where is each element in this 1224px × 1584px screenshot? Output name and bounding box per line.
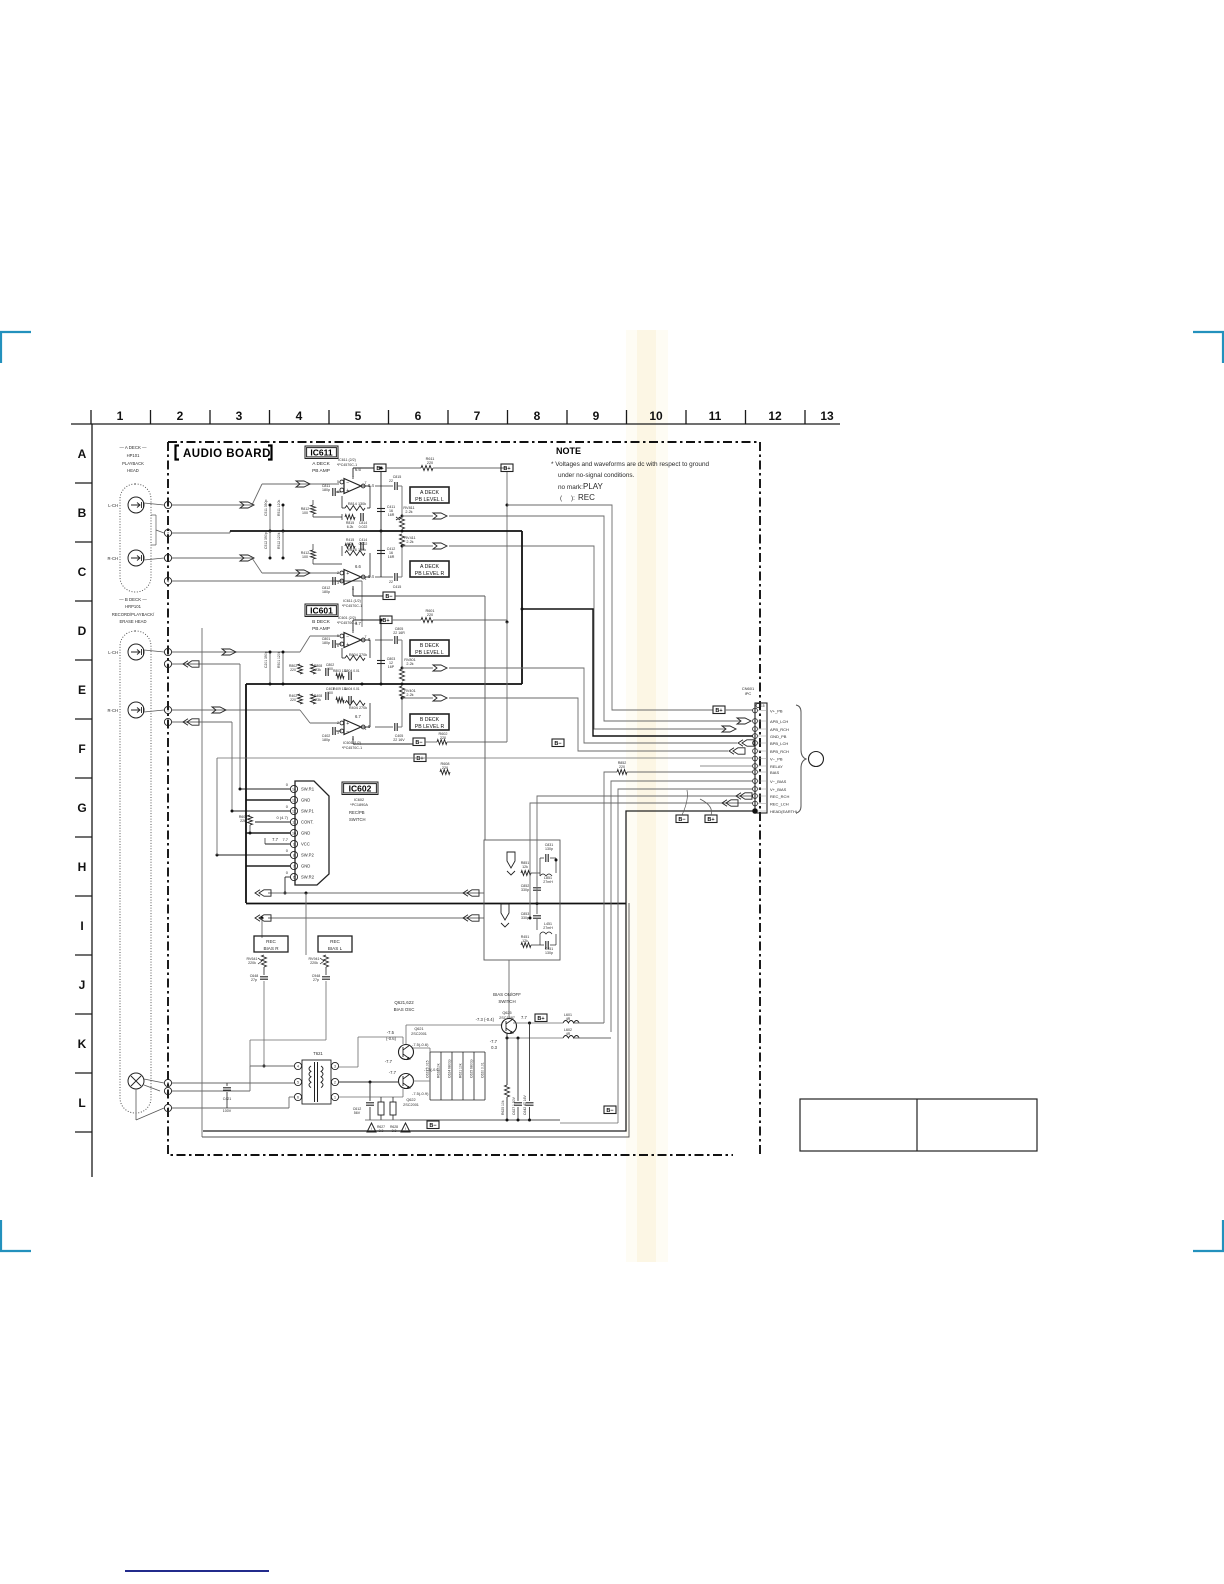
svg-text:2SC2001: 2SC2001 xyxy=(403,1103,419,1107)
svg-text:3: 3 xyxy=(334,1065,336,1069)
svg-text:3: 3 xyxy=(167,557,169,561)
svg-text:D: D xyxy=(78,624,87,638)
svg-text:GND: GND xyxy=(301,798,310,803)
decoupling cap C803 xyxy=(380,620,382,684)
svg-text:2.2k: 2.2k xyxy=(406,662,413,666)
wire E BPB_LCH xyxy=(449,668,737,743)
wire from B- rail down xyxy=(484,596,486,840)
svg-text:Q621,622: Q621,622 xyxy=(394,1000,414,1005)
svg-text:BIAS ON/OFF: BIAS ON/OFF xyxy=(493,992,521,997)
svg-text:C: C xyxy=(78,565,87,579)
arrow on L-ch input xyxy=(240,502,254,508)
B- box IC601 xyxy=(413,738,425,746)
input cap C402 xyxy=(332,727,334,735)
svg-text:B+: B+ xyxy=(715,708,722,714)
svg-text:7.7: 7.7 xyxy=(282,837,288,842)
svg-text:RELAY: RELAY xyxy=(770,764,783,769)
Q621 emitter wire xyxy=(413,1047,430,1049)
B+ box IC611 xyxy=(374,464,386,472)
B deck PB level L box xyxy=(410,640,449,656)
svg-text:5: 5 xyxy=(337,634,339,638)
B- box bias xyxy=(427,1121,439,1129)
head leads xyxy=(144,503,164,505)
warning triangle 1 xyxy=(367,1123,376,1132)
wire C start (APB_RCH) xyxy=(402,545,433,547)
registration mark bottom-left xyxy=(0,1220,31,1251)
B- leader label xyxy=(676,815,688,823)
arrow B-deck L-ch xyxy=(222,649,236,655)
T621 pin1 wire xyxy=(339,1096,403,1098)
input cap C811 xyxy=(332,488,334,496)
svg-text:9: 9 xyxy=(293,843,295,847)
Q622 emitter drop xyxy=(402,1089,404,1097)
svg-text:220: 220 xyxy=(619,765,625,769)
svg-text:HP101: HP101 xyxy=(127,453,140,458)
svg-text:4: 4 xyxy=(167,580,169,584)
svg-text:C804 0.01: C804 0.01 xyxy=(344,669,359,673)
wire A V+_PB xyxy=(507,505,713,710)
arrow B-deck R-ch xyxy=(212,707,226,713)
svg-text:AUDIO BOARD: AUDIO BOARD xyxy=(183,448,271,460)
op-amp U1A xyxy=(344,479,361,494)
svg-text:SW.P1: SW.P1 xyxy=(301,809,314,814)
pot RV801 xyxy=(400,669,405,681)
svg-text:B+: B+ xyxy=(416,756,423,762)
svg-text:−: − xyxy=(346,579,349,585)
B+ box col8 xyxy=(501,464,513,472)
svg-text:8: 8 xyxy=(534,409,541,423)
svg-text:BPB_RCH: BPB_RCH xyxy=(770,749,789,754)
svg-text:4: 4 xyxy=(296,409,303,423)
filter cap C853 xyxy=(533,915,541,917)
left vertical x217 xyxy=(216,758,218,855)
svg-text:10: 10 xyxy=(292,832,296,836)
svg-text:SWITCH: SWITCH xyxy=(349,817,366,822)
svg-text:B−: B− xyxy=(429,1123,436,1129)
svg-text:6: 6 xyxy=(167,709,169,713)
svg-text:R621 10k: R621 10k xyxy=(459,1063,463,1078)
wire pin7 V-_PB xyxy=(217,757,753,759)
Q621 collector riser xyxy=(405,1025,407,1044)
svg-text:13: 13 xyxy=(292,799,296,803)
svg-text:220: 220 xyxy=(440,736,446,740)
filter cap C852 xyxy=(533,887,541,889)
IC602 pins xyxy=(290,785,297,792)
svg-text:IC601 (2/2): IC601 (2/2) xyxy=(338,616,356,620)
svg-text:27mH: 27mH xyxy=(543,880,553,884)
svg-text:B+: B+ xyxy=(382,618,389,624)
svg-text:IC602: IC602 xyxy=(354,798,364,802)
head shield stubs xyxy=(151,514,156,516)
in-arrow pin13 xyxy=(722,800,727,806)
audio board title xyxy=(176,446,180,460)
svg-text:REC/PB: REC/PB xyxy=(349,810,365,815)
fuse resistor R627 body xyxy=(378,1102,384,1115)
svg-text:7: 7 xyxy=(293,865,295,869)
wire B APB_LCH xyxy=(449,516,740,721)
svg-text:A DECK: A DECK xyxy=(312,461,330,467)
IC601 label box xyxy=(305,604,338,617)
svg-text:0: 0 xyxy=(368,724,371,729)
svg-text:2SC2001: 2SC2001 xyxy=(411,1032,427,1036)
svg-text:B: B xyxy=(167,721,170,725)
svg-text:6.7: 6.7 xyxy=(355,621,361,626)
svg-text:L-CH: L-CH xyxy=(108,503,118,508)
wire pin12 REC_RCH xyxy=(537,796,753,903)
R802 R808 cluster xyxy=(298,664,303,674)
svg-text:3.3: 3.3 xyxy=(379,1129,384,1133)
cap E421 xyxy=(226,1083,228,1086)
svg-text:4: 4 xyxy=(297,1065,299,1069)
svg-text:PB LEVEL L: PB LEVEL L xyxy=(415,497,444,503)
wire F BPB_RCH xyxy=(449,698,728,751)
bias enclosure box xyxy=(202,903,629,1137)
A deck playback head outline xyxy=(120,484,151,592)
svg-text:V+_BIAS: V+_BIAS xyxy=(770,787,787,792)
svg-text:— B DECK —: — B DECK — xyxy=(119,597,147,602)
svg-text:E: E xyxy=(78,683,86,697)
svg-text:C620 0.01: C620 0.01 xyxy=(481,1062,485,1078)
B- rail corner xyxy=(617,1111,619,1123)
svg-text:SW.R1: SW.R1 xyxy=(301,787,315,792)
osc feedback wire xyxy=(358,1036,403,1038)
wire pin10 V-_BIAS xyxy=(611,781,753,1032)
svg-text:SW.P2: SW.P2 xyxy=(301,853,314,858)
svg-text:R814 130k: R814 130k xyxy=(348,502,366,506)
in-arrow right y918 xyxy=(463,915,468,921)
R609 CONT resistor xyxy=(248,815,253,825)
in-arrow right y893 xyxy=(463,890,468,896)
T601 pins right xyxy=(331,1062,338,1069)
svg-text:APB_RCH: APB_RCH xyxy=(770,727,789,732)
svg-text:C421: C421 xyxy=(223,1097,232,1101)
in-arrow pin5 xyxy=(738,740,743,746)
svg-text:R-CH: R-CH xyxy=(108,708,118,713)
B+ box on V- wire xyxy=(414,754,426,762)
svg-text:12: 12 xyxy=(292,810,296,814)
svg-text:BIAS R: BIAS R xyxy=(263,946,279,951)
svg-text:B+: B+ xyxy=(707,817,714,823)
svg-text:no mark:: no mark: xyxy=(558,484,583,491)
svg-text:1: 1 xyxy=(365,727,367,731)
svg-text:3: 3 xyxy=(236,409,243,423)
svg-text:REC_RCH: REC_RCH xyxy=(770,794,789,799)
wire B-deck R-ch xyxy=(172,709,300,711)
svg-text:B−: B− xyxy=(678,817,685,823)
svg-text:NOTE: NOTE xyxy=(556,446,581,456)
board edge pins erase xyxy=(164,1079,171,1086)
svg-text:0: 0 xyxy=(368,637,371,642)
B deck head outline xyxy=(120,631,151,1113)
output cap C405 xyxy=(375,726,393,728)
wire pin11 V+_BIAS xyxy=(618,789,753,1111)
svg-text:*PC1890A: *PC1890A xyxy=(350,803,368,807)
svg-text:1: 1 xyxy=(365,577,367,581)
svg-text:ERASE HEAD: ERASE HEAD xyxy=(120,619,147,624)
svg-text:130p: 130p xyxy=(545,951,553,955)
audio board dashed outline xyxy=(168,442,760,1155)
svg-text:APB_LCH: APB_LCH xyxy=(770,719,788,724)
svg-text:2: 2 xyxy=(337,571,339,575)
in-arrow left y918 xyxy=(255,915,260,921)
svg-text:9: 9 xyxy=(167,1082,169,1086)
svg-text:220: 220 xyxy=(290,698,296,702)
svg-text:PLAYBACK: PLAYBACK xyxy=(122,461,144,466)
svg-text:R804 270k: R804 270k xyxy=(349,653,367,657)
svg-text:-7.7: -7.7 xyxy=(385,1059,393,1064)
svg-text:IC611 (1/2): IC611 (1/2) xyxy=(343,599,361,603)
svg-text:I: I xyxy=(80,919,83,933)
T621 pin3 riser xyxy=(339,1066,358,1068)
svg-text:C201 390p: C201 390p xyxy=(264,651,268,668)
svg-text:7.7: 7.7 xyxy=(521,1015,527,1020)
cap C612 xyxy=(369,1082,371,1101)
svg-text:0: 0 xyxy=(286,848,289,853)
decoupling cap C412 xyxy=(380,531,382,577)
svg-text:1: 1 xyxy=(117,409,124,423)
ground bus B heavy xyxy=(246,683,522,685)
svg-text:+: + xyxy=(346,571,349,577)
svg-text:C511 390p: C511 390p xyxy=(264,500,268,516)
connector circle xyxy=(809,752,824,767)
svg-text:330p: 330p xyxy=(521,888,529,892)
feedback R804 xyxy=(362,639,370,641)
svg-text:A DECK: A DECK xyxy=(420,564,440,570)
svg-text:130p: 130p xyxy=(545,847,553,851)
T601 pins left xyxy=(294,1062,301,1069)
svg-text:-7.3 (-0.4): -7.3 (-0.4) xyxy=(476,1017,495,1022)
feedback R416 network xyxy=(341,546,343,556)
svg-text:* Voltages and waveforms are d: * Voltages and waveforms are dc with res… xyxy=(551,461,710,468)
registration mark top-left xyxy=(0,332,31,363)
svg-text:0: 0 xyxy=(286,782,289,787)
bias bottom rail xyxy=(365,1119,400,1121)
svg-text:V−_PB: V−_PB xyxy=(770,756,783,761)
svg-text:B DECK: B DECK xyxy=(420,643,440,649)
svg-text:V−_BIAS: V−_BIAS xyxy=(770,779,787,784)
input shunt C512 R512 xyxy=(269,531,271,558)
svg-text:C627 1 50V: C627 1 50V xyxy=(512,1096,516,1115)
svg-text:220k: 220k xyxy=(310,961,318,965)
svg-text:2: 2 xyxy=(337,721,339,725)
shield arrow upper xyxy=(507,852,515,868)
grid row letter column xyxy=(91,424,93,1177)
erase head bottom lead xyxy=(135,1089,137,1120)
IC602 body xyxy=(295,781,329,885)
svg-text:−: − xyxy=(346,729,349,735)
grid row letters xyxy=(77,447,86,1110)
pot RV941 xyxy=(324,955,329,967)
svg-text:0: 0 xyxy=(286,870,289,875)
svg-text:11: 11 xyxy=(292,821,296,825)
Q622 wires xyxy=(413,1080,430,1082)
svg-text:100: 100 xyxy=(302,511,308,515)
svg-text:L: L xyxy=(78,1096,85,1110)
output cap C805 xyxy=(375,639,393,641)
U2A supply rail xyxy=(352,620,354,631)
svg-text:0.022: 0.022 xyxy=(359,542,368,546)
svg-text:3.3: 3.3 xyxy=(392,1129,397,1133)
svg-text:3: 3 xyxy=(337,731,339,735)
cap C948 xyxy=(325,967,327,975)
connector top pin xyxy=(756,704,760,708)
svg-text:( ):: ( ): xyxy=(560,495,575,502)
svg-text:100: 100 xyxy=(302,555,308,559)
svg-text:-7.5(-0.9): -7.5(-0.9) xyxy=(424,1068,440,1072)
IC602 pin stubs xyxy=(240,788,290,790)
rec wire y893 xyxy=(268,892,484,894)
board edge pins B deck xyxy=(164,648,171,655)
wire pin14 HEAD EARTH xyxy=(203,811,753,1131)
U2B negative rail xyxy=(352,736,354,744)
svg-text:J: J xyxy=(79,978,86,992)
svg-text:R416 130k: R416 130k xyxy=(348,548,366,552)
svg-text:A: A xyxy=(167,663,170,667)
wire A-deck R-ch input xyxy=(172,557,252,559)
svg-text:!: ! xyxy=(371,1126,372,1131)
svg-text:PB AMP: PB AMP xyxy=(312,468,330,474)
IC611 label box xyxy=(305,446,338,459)
svg-text:6: 6 xyxy=(297,1096,299,1100)
bias bottom rail right xyxy=(400,1119,560,1121)
wire B-deck L-ch xyxy=(172,651,300,653)
corner to RV801 xyxy=(401,640,403,668)
corner to RV411 xyxy=(401,546,403,577)
cap C648 xyxy=(263,967,265,975)
B deck PB level R box xyxy=(410,714,449,730)
REC BIAS R box xyxy=(254,936,288,952)
svg-text:-7.7: -7.7 xyxy=(389,1070,397,1075)
svg-text:0: 0 xyxy=(286,804,289,809)
cap C642 xyxy=(529,1023,531,1101)
svg-text:12: 12 xyxy=(768,409,782,423)
registration mark bottom-right xyxy=(1193,1220,1224,1251)
svg-text:7: 7 xyxy=(167,1107,169,1111)
registration mark top-right xyxy=(1193,332,1224,363)
svg-text:180p: 180p xyxy=(322,641,330,645)
output corner to RV811 xyxy=(401,486,403,516)
svg-text:6.7: 6.7 xyxy=(355,714,361,719)
out-arrow pin3 xyxy=(722,726,736,732)
svg-text:*PC4570C-1: *PC4570C-1 xyxy=(342,746,362,750)
svg-text:B−: B− xyxy=(385,594,392,600)
transistor Q621 xyxy=(399,1045,414,1060)
wire pin8 RELAY xyxy=(700,765,753,767)
svg-text:IC611 (2/2): IC611 (2/2) xyxy=(338,458,356,462)
svg-text:R511 120k: R511 120k xyxy=(277,500,281,516)
spec table bottom right xyxy=(800,1099,1037,1151)
svg-text:C404 0.01: C404 0.01 xyxy=(344,687,359,691)
svg-text:2.2k: 2.2k xyxy=(406,540,413,544)
svg-text:16R: 16R xyxy=(388,513,395,517)
Q625 base wire xyxy=(508,960,510,1018)
svg-text:K: K xyxy=(78,1037,87,1051)
svg-text:C512 390p: C512 390p xyxy=(264,532,268,549)
svg-text:C415: C415 xyxy=(393,585,402,589)
B+ leader label xyxy=(705,815,717,823)
wire pin9 BIAS xyxy=(604,772,753,1023)
svg-text:8: 8 xyxy=(293,854,295,858)
svg-text:R-CH: R-CH xyxy=(108,556,118,561)
svg-text:GND: GND xyxy=(301,864,310,869)
svg-text:VCC: VCC xyxy=(301,842,310,847)
B- box IC611 xyxy=(383,592,395,600)
svg-text:16R: 16R xyxy=(388,555,395,559)
wire to filter column xyxy=(395,595,485,597)
svg-text:100V: 100V xyxy=(223,1109,232,1113)
svg-text:180p: 180p xyxy=(322,488,330,492)
transistor Q622 xyxy=(399,1074,414,1089)
R412 divider xyxy=(311,550,316,559)
board edge pins A deck xyxy=(164,501,171,508)
svg-text:180p: 180p xyxy=(322,590,330,594)
rec filter loop box xyxy=(484,840,560,960)
wire F start (BPB_RCH) xyxy=(402,697,433,699)
svg-text:IC601 (1/2): IC601 (1/2) xyxy=(343,741,361,745)
svg-text:22 16V: 22 16V xyxy=(393,738,405,742)
svg-text:Q622: Q622 xyxy=(406,1098,415,1102)
svg-text:G: G xyxy=(77,801,86,815)
input cap C801 xyxy=(332,640,334,648)
svg-text:F: F xyxy=(78,742,85,756)
B+ rail IC601 xyxy=(392,619,421,621)
svg-text:13: 13 xyxy=(820,409,834,423)
B+ box bias xyxy=(535,1014,547,1022)
grid header line xyxy=(71,423,840,425)
svg-text:PB LEVEL L: PB LEVEL L xyxy=(415,650,444,656)
op-amp U2A xyxy=(344,633,361,648)
wire B start (APB_LCH) xyxy=(402,515,433,517)
B+ rail to column 8 xyxy=(386,467,421,469)
svg-text:27mH: 27mH xyxy=(543,926,553,930)
B- box right xyxy=(604,1106,616,1114)
svg-text:B+: B+ xyxy=(537,1016,544,1022)
svg-text:-7.5(-0.9): -7.5(-0.9) xyxy=(412,1091,429,1096)
svg-text:0.022: 0.022 xyxy=(359,525,368,529)
wire A-deck L-ch input xyxy=(172,504,252,506)
cap C627 xyxy=(517,1038,519,1101)
in-arrow pin12 xyxy=(736,793,741,799)
heavy gnd bus y903 xyxy=(246,903,560,905)
svg-text:A DECK: A DECK xyxy=(420,490,440,496)
wire A-deck gnd heavy xyxy=(172,532,230,534)
svg-text:— A DECK —: — A DECK — xyxy=(119,445,147,450)
input shunt C511 R511 xyxy=(269,505,271,531)
svg-text:−: − xyxy=(346,480,349,486)
svg-text:1: 1 xyxy=(167,504,169,508)
svg-text:BIAS L: BIAS L xyxy=(328,946,343,951)
svg-text:2: 2 xyxy=(167,532,169,536)
svg-text:6.6: 6.6 xyxy=(355,564,361,569)
svg-text:PB LEVEL R: PB LEVEL R xyxy=(415,724,445,730)
pot RV641 xyxy=(262,955,267,967)
svg-text:BIAS OSC: BIAS OSC xyxy=(394,1007,415,1012)
T621 pin2 wire xyxy=(339,1081,399,1083)
svg-text:L-CH: L-CH xyxy=(108,650,118,655)
svg-text:12k: 12k xyxy=(522,865,528,869)
svg-text:2: 2 xyxy=(334,1081,336,1085)
svg-text:T621: T621 xyxy=(313,1051,323,1056)
svg-text:15: 15 xyxy=(761,704,765,708)
in-arrow B-deck L-rec xyxy=(183,661,188,667)
heavy gnd to pin4 xyxy=(521,531,523,684)
B+ box at pin1 xyxy=(713,706,725,714)
output cap C816 xyxy=(375,576,393,578)
svg-text:HEAD(EARTH): HEAD(EARTH) xyxy=(770,809,798,814)
svg-text:!: ! xyxy=(405,1126,406,1131)
svg-text:220k: 220k xyxy=(248,961,256,965)
wire C APB_RCH xyxy=(449,546,726,729)
